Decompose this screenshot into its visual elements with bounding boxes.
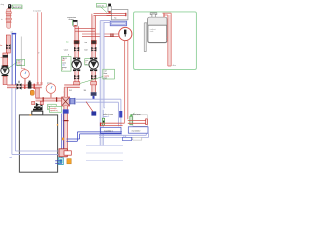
drain valve	[28, 82, 32, 88]
label radiant pump	[103, 69, 115, 79]
valve B	[91, 47, 96, 51]
motorized valve top	[96, 4, 106, 8]
valve stack left	[6, 35, 10, 53]
dark blue return pair	[67, 132, 122, 141]
sensor line	[20, 37, 22, 69]
svg-text:hx: hx	[114, 17, 116, 19]
svg-text:dwg: dwg	[1, 4, 5, 6]
svg-text:pipe: pipe	[104, 78, 108, 80]
label between pumps	[85, 59, 93, 65]
label pump P1	[17, 59, 25, 65]
injection pump purple	[70, 98, 75, 104]
union fitting	[3, 53, 8, 65]
svg-text:AIRVENT: AIRVENT	[13, 6, 23, 9]
svg-text:zn: zn	[85, 64, 87, 66]
leader to P1	[7, 63, 17, 70]
pump P3	[90, 58, 97, 60]
pump P1	[2, 66, 9, 67]
union B	[91, 40, 96, 44]
tee red near flange	[32, 101, 35, 104]
svg-text:bv: bv	[0, 45, 2, 47]
label air vent	[12, 5, 22, 9]
expansion tank small	[30, 90, 34, 95]
main header lower	[36, 98, 62, 101]
main header upper	[7, 85, 42, 88]
lavender mix return run	[75, 98, 121, 100]
air vent V1	[8, 4, 11, 8]
svg-text:iso: iso	[66, 42, 68, 44]
ball valve B1	[6, 44, 10, 49]
svg-text:speed inj: speed inj	[50, 110, 58, 112]
fitting dark below B	[91, 92, 97, 96]
svg-text:3/4: 3/4	[69, 90, 72, 92]
tank red pipe	[168, 15, 171, 66]
svg-text:manifold 2: manifold 2	[132, 130, 141, 132]
indirect tank enclosure	[134, 12, 197, 70]
lavender supply band	[100, 20, 110, 22]
tank top fitting	[150, 13, 157, 15]
union A	[74, 40, 79, 44]
svg-text:valve: valve	[64, 49, 68, 51]
svg-text:tank: tank	[150, 30, 154, 33]
actuator box	[91, 111, 96, 115]
tank left grey pipe	[144, 23, 148, 52]
valve A	[74, 47, 79, 51]
pipe column A	[75, 26, 78, 57]
riser pipe left upper	[6, 9, 11, 29]
label boiler trim	[48, 104, 57, 110]
pump P1 outlet elbow	[3, 76, 7, 84]
pump P2	[73, 58, 80, 60]
manifold 2 assembly	[133, 115, 148, 127]
boiler	[19, 115, 57, 172]
label P2	[61, 57, 71, 72]
boiler flange stack	[34, 106, 41, 108]
top cross pipe A-B	[75, 28, 95, 30]
label mixing block	[49, 106, 61, 112]
svg-text:3/4: 3/4	[84, 90, 87, 92]
thermostat wire	[86, 102, 93, 112]
indirect tank	[148, 17, 167, 42]
svg-text:1: 1	[62, 69, 63, 71]
svg-text:un: un	[0, 57, 2, 59]
pipe column B	[92, 16, 95, 58]
boiler isolation valve	[36, 103, 43, 111]
feed pipe to HX valve	[94, 12, 127, 14]
pipe below P2	[75, 71, 78, 85]
boiler return blue pipe	[61, 114, 63, 159]
union tick	[24, 84, 25, 89]
feed to zone valve circle	[82, 33, 119, 35]
radiant loops faint	[86, 146, 123, 161]
red drop from circle	[124, 40, 126, 123]
elbow A to cross	[64, 85, 80, 87]
svg-text:ts: ts	[1, 18, 3, 21]
svg-text:iso: iso	[85, 42, 87, 44]
boiler supply drop pipes	[64, 106, 68, 150]
lavender manifold return	[99, 133, 149, 139]
blue pipe pair	[12, 33, 17, 35]
connector down	[36, 88, 40, 98]
lavender return left vertical	[12, 88, 60, 154]
pipe below P3	[92, 71, 95, 92]
zone valve circle ZV1	[119, 27, 132, 40]
svg-text:to system: to system	[33, 9, 42, 12]
small control boxes	[123, 137, 132, 140]
purple control box	[110, 21, 126, 26]
heat exchanger box	[111, 10, 128, 20]
zone manifold cross	[62, 97, 70, 106]
svg-text:zone vlv: zone vlv	[97, 5, 104, 7]
boiler connection assembly	[59, 149, 67, 157]
gate valve on header	[17, 83, 22, 89]
